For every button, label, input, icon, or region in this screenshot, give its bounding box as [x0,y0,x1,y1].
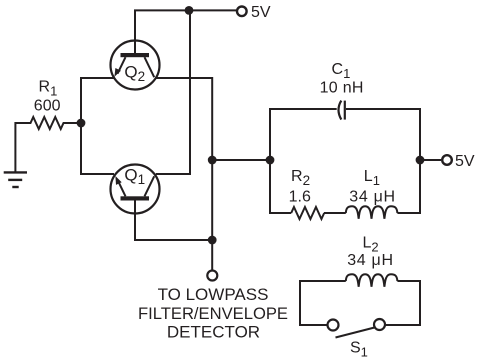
svg-text:R1: R1 [39,79,58,99]
wire: 5V top rail [135,10,236,53]
svg-text:FILTER/ENVELOPE: FILTER/ENVELOPE [138,304,288,323]
transistor Q2 [111,41,160,90]
transistor Q1 [111,165,160,214]
wire: R2 to L1 [324,212,346,214]
svg-text:R2: R2 [291,168,310,188]
terminal: +5V top open circle [237,7,247,17]
junction: base line / output column [208,236,217,245]
wire: tank feed [212,159,270,161]
wire: Q2 emitter to left rail [81,78,114,174]
wire: tank right side (C1 to L1) [346,109,420,213]
wire: L2 loop left side [300,281,346,325]
svg-text:1.6: 1.6 [289,188,311,205]
svg-text:DETECTOR: DETECTOR [167,322,260,341]
wire: Q1 collector riser [156,10,190,174]
svg-text:34 μH: 34 μH [347,252,394,269]
wire: to right 5V terminal [420,159,441,161]
svg-text:TO LOWPASS: TO LOWPASS [158,285,269,304]
junction: output column / tank feed [208,156,217,165]
svg-text:10 nH: 10 nH [320,80,364,97]
ground [4,172,27,187]
svg-text:L1: L1 [364,168,380,188]
wire: L2 loop right side [385,281,420,325]
terminal: output to lowpass filter [207,271,217,281]
junction: tank left node [266,156,275,165]
svg-text:600: 600 [34,97,61,114]
svg-text:C1: C1 [332,61,351,81]
svg-text:34 μH: 34 μH [349,188,396,205]
resistor R2 [291,207,324,219]
junction: tank right node [416,156,425,165]
inductor L2 [346,274,398,287]
svg-text:5V: 5V [251,4,271,21]
junction: top rail / Q1 collector riser [185,6,194,15]
capacitor C1 [339,101,345,120]
switch S1 [328,319,386,338]
wire: Q1 base lead [135,201,212,241]
svg-text:Q2: Q2 [124,62,145,84]
junction: R1 / emitter rail [77,119,86,128]
svg-text:Q1: Q1 [124,165,145,187]
svg-text:5V: 5V [455,153,475,170]
terminal: +5V right open circle [442,155,452,165]
inductor L1 [346,206,398,219]
svg-text:S1: S1 [350,340,368,360]
wire: Q2 collector to output column [156,78,212,270]
resistor R1 [15,117,81,172]
wire: tank left side (C1 to R2) [270,109,337,213]
